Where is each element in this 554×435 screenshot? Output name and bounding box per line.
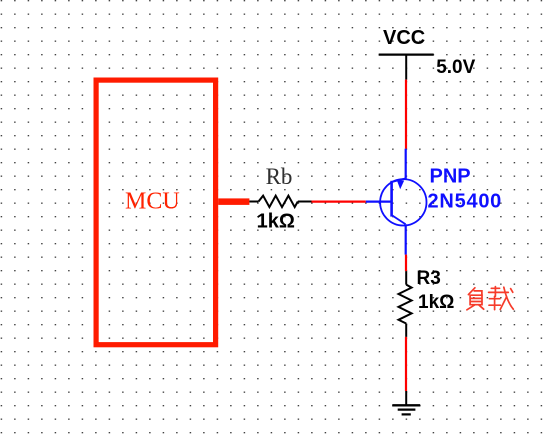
svg-text:1kΩ: 1kΩ bbox=[418, 292, 454, 313]
wire: black stub below VCC bar bbox=[405, 55, 407, 80]
wire: black R3 top lead bbox=[405, 271, 407, 284]
wire: black ground stub bbox=[405, 391, 407, 405]
wire: blue base lead bbox=[366, 201, 391, 203]
resistor Rb bbox=[259, 196, 298, 207]
wire: black segment right of Rb bbox=[298, 201, 312, 203]
wire: red collector to R3 bbox=[405, 255, 407, 272]
wire: black segment MCU stub to Rb bbox=[249, 201, 258, 203]
svg-text:5.0V: 5.0V bbox=[436, 57, 475, 78]
wire: blue emitter lead bbox=[405, 149, 407, 180]
svg-text:PNP: PNP bbox=[430, 166, 471, 188]
wire: red VCC to emitter bbox=[405, 80, 407, 149]
svg-text:1kΩ: 1kΩ bbox=[257, 211, 295, 233]
svg-text:VCC: VCC bbox=[383, 27, 425, 49]
wire: blue collector lead bbox=[405, 224, 407, 254]
wire: red base wire bbox=[312, 201, 366, 203]
wire: thick red stub from MCU pin bbox=[218, 198, 249, 205]
MCU block U1 bbox=[96, 80, 216, 345]
power VCC bar bbox=[379, 53, 434, 55]
resistor R3 bbox=[399, 285, 412, 324]
transistor Q1 (PNP 2N5400) bbox=[380, 178, 426, 225]
ground bbox=[392, 405, 420, 414]
svg-text:R3: R3 bbox=[417, 268, 441, 289]
svg-text:Rb: Rb bbox=[266, 164, 293, 189]
wire: black R3 bottom lead bbox=[405, 324, 407, 337]
wire: red R3 to ground bbox=[405, 337, 407, 391]
svg-text:MCU: MCU bbox=[125, 189, 180, 215]
label 负载 (load) bbox=[467, 287, 513, 310]
svg-text:2N5400: 2N5400 bbox=[428, 191, 503, 213]
